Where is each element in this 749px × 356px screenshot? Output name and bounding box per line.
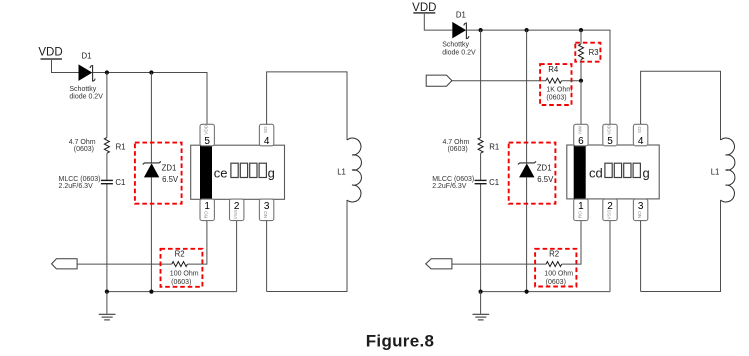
ground symbol right — [473, 292, 490, 320]
svg-text:L1: L1 — [337, 168, 346, 177]
svg-text:C1: C1 — [489, 178, 499, 187]
junction node gnd-C1 right — [479, 290, 483, 294]
wire node to pin 6 — [580, 81, 582, 125]
svg-text:NW: NW — [577, 125, 583, 133]
pin 4 SO right — [633, 124, 647, 147]
value 4.7 Ohm (0603) left — [69, 139, 96, 153]
highlight box around ZD1 left — [135, 143, 182, 204]
resistor R2 right — [544, 250, 573, 287]
pin 1 RO right — [574, 199, 588, 221]
wire rail to R3 — [580, 30, 582, 44]
svg-text:Figure.8: Figure.8 — [366, 331, 435, 350]
svg-text:(0603): (0603) — [74, 146, 94, 153]
diode D1 (Schottky) right — [452, 10, 469, 38]
ground rail left — [107, 291, 237, 293]
wire pin 4 to load loop top — [267, 72, 347, 140]
inductor L1 right — [711, 138, 735, 202]
resistor R3 — [579, 44, 599, 60]
resistor R2 left — [170, 250, 199, 287]
svg-text:ZD1: ZD1 — [162, 164, 177, 173]
junction node rail-R3 — [579, 28, 583, 32]
pin 2 VSS right — [603, 199, 617, 221]
resistor R4 — [546, 65, 572, 102]
svg-text:R2: R2 — [175, 250, 185, 259]
power symbol VDD left — [38, 46, 62, 59]
wire VDD to D1 anode right — [424, 14, 452, 30]
junction node rail-R1 right — [479, 28, 483, 32]
power symbol VDD right — [412, 2, 436, 14]
highlight box around ZD1 right — [509, 143, 556, 204]
ground symbol left — [99, 292, 116, 320]
wire ZD1 branch — [150, 73, 152, 292]
wire input to R2 right — [452, 263, 546, 265]
wire pin 4 to load loop top right — [641, 71, 721, 140]
svg-text:diode 0.2V: diode 0.2V — [69, 93, 103, 100]
IC U1 pin-1 side black bar — [200, 145, 212, 199]
svg-text:R4: R4 — [548, 65, 559, 74]
svg-text:2.2uF/6.3V: 2.2uF/6.3V — [59, 183, 94, 190]
svg-text:RO: RO — [577, 211, 583, 218]
svg-text:4: 4 — [638, 136, 644, 147]
svg-text:Schottky: Schottky — [442, 41, 469, 48]
wire L1 to loop bottom — [267, 200, 347, 292]
wire R4 to node — [562, 80, 582, 82]
svg-text:5: 5 — [607, 136, 613, 147]
svg-text:4.7 Ohm: 4.7 Ohm — [69, 139, 96, 146]
pin 3 NO right — [633, 199, 647, 221]
input connector left (bottom) — [52, 259, 78, 269]
pin 6 NW right — [574, 124, 588, 147]
ground rail right — [481, 291, 610, 293]
svg-text:ce: ce — [214, 166, 228, 181]
junction node gnd-C1 — [105, 290, 109, 294]
svg-text:1: 1 — [578, 201, 584, 212]
svg-text:100 Ohm: 100 Ohm — [544, 270, 573, 277]
svg-text:cd: cd — [589, 166, 603, 181]
wire R3 to node — [580, 60, 582, 81]
value MLCC (0603) 2.2uF/6.3V left — [59, 176, 101, 190]
junction node R3-R4 — [579, 79, 583, 83]
svg-text:3: 3 — [264, 201, 270, 212]
junction node gnd-ZD1 right — [525, 290, 529, 294]
svg-text:VDD: VDD — [38, 46, 62, 58]
svg-text:R2: R2 — [549, 250, 559, 259]
input connector right (top) — [426, 75, 452, 86]
svg-text:MLCC (0603): MLCC (0603) — [432, 176, 474, 183]
wire R1 branch right — [480, 30, 482, 292]
svg-text:SO: SO — [263, 126, 269, 133]
junction node rail-ZD1 right — [525, 28, 529, 32]
pin 5 VDD left — [200, 124, 214, 147]
svg-text:ZD1: ZD1 — [537, 164, 552, 173]
highlight box around R4 — [540, 64, 571, 105]
wire ZD1 branch right — [526, 30, 528, 292]
svg-text:NO: NO — [637, 211, 643, 218]
value 4.7 Ohm (0603) right — [442, 139, 469, 153]
wire R1 branch — [106, 73, 108, 292]
wire pin 2 to ground rail — [236, 221, 238, 292]
wire VDD rail to pin 5 — [93, 73, 207, 125]
highlight box around R2 left — [161, 249, 203, 287]
zener diode ZD1 left — [143, 161, 179, 184]
svg-text:L1: L1 — [711, 168, 720, 177]
wire VDD to D1 anode — [52, 60, 79, 73]
svg-text:D1: D1 — [82, 52, 92, 61]
svg-text:6.5V: 6.5V — [162, 175, 179, 184]
pin 2 VSS left — [230, 199, 244, 221]
IC U1 body left — [191, 145, 285, 199]
svg-text:NO: NO — [263, 211, 269, 218]
svg-text:g: g — [643, 166, 650, 181]
IC U2 body right — [567, 145, 659, 199]
value MLCC (0603) 2.2uF/6.3V right — [432, 176, 474, 190]
svg-text:VSS: VSS — [607, 210, 613, 220]
svg-text:MLCC (0603): MLCC (0603) — [59, 176, 101, 183]
junction node rail-R1 — [105, 70, 109, 74]
svg-text:100 Ohm: 100 Ohm — [170, 270, 199, 277]
wire L1 to loop bottom right — [641, 200, 721, 292]
pin 3 NO left — [259, 199, 273, 221]
zener diode ZD1 right — [518, 161, 554, 184]
highlight box around R2 right — [535, 249, 576, 287]
svg-text:g: g — [268, 166, 275, 181]
diode D1 (Schottky) left — [79, 52, 96, 82]
svg-text:Schottky: Schottky — [69, 86, 96, 93]
svg-text:1K Ohm: 1K Ohm — [546, 87, 572, 94]
pin 4 SO left — [259, 124, 273, 147]
svg-text:R1: R1 — [489, 142, 499, 151]
wire R2 to pin 1 — [187, 221, 207, 264]
wire pin 2 to ground rail right — [609, 221, 611, 292]
svg-text:6.5V: 6.5V — [537, 175, 554, 184]
resistor R1 right — [478, 138, 499, 154]
svg-text:RO: RO — [204, 211, 210, 218]
highlight box around R3 — [575, 43, 600, 62]
IC U2 pin-1 side black bar — [574, 145, 586, 199]
inductor L1 left — [337, 138, 361, 202]
wire pin 3 to loop right — [640, 221, 642, 292]
pin 5 VDD right — [603, 124, 617, 147]
svg-text:VDD: VDD — [607, 124, 613, 135]
svg-text:4.7 Ohm: 4.7 Ohm — [442, 139, 469, 146]
svg-text:R1: R1 — [116, 142, 126, 151]
wire input to R4 — [452, 80, 546, 82]
capacitor C1 right — [475, 178, 499, 187]
svg-text:(0603): (0603) — [171, 279, 191, 286]
wire R2 to pin 1 right — [562, 221, 581, 265]
wire VDD rail to pin 5 right — [467, 30, 610, 124]
svg-text:4: 4 — [264, 136, 270, 147]
svg-text:3: 3 — [638, 201, 644, 212]
svg-text:5: 5 — [204, 136, 210, 147]
label Schottky diode 0.2V left — [69, 86, 103, 101]
input connector right (bottom) — [426, 259, 452, 269]
capacitor C1 left — [101, 178, 125, 187]
svg-text:(0603): (0603) — [546, 279, 566, 286]
svg-text:SO: SO — [637, 126, 643, 133]
svg-text:2.2uF/6.3V: 2.2uF/6.3V — [432, 183, 467, 190]
label Schottky diode 0.2V right — [442, 41, 476, 56]
svg-text:VDD: VDD — [204, 124, 210, 135]
wire pin 3 to loop — [266, 221, 268, 292]
svg-text:D1: D1 — [456, 10, 466, 19]
svg-text:C1: C1 — [115, 178, 125, 187]
svg-text:1: 1 — [204, 201, 210, 212]
resistor R1 left — [104, 138, 125, 154]
svg-text:6: 6 — [578, 136, 584, 147]
pin 1 RO left — [200, 199, 214, 221]
svg-text:R3: R3 — [589, 48, 599, 57]
wire input to R2 — [77, 263, 172, 265]
junction node rail-ZD1 — [149, 70, 153, 74]
svg-text:VSS: VSS — [233, 210, 239, 220]
junction node gnd-ZD1 — [149, 290, 153, 294]
svg-text:diode 0.2V: diode 0.2V — [442, 49, 476, 56]
svg-text:(0603): (0603) — [447, 146, 467, 153]
svg-text:(0603): (0603) — [546, 95, 566, 102]
